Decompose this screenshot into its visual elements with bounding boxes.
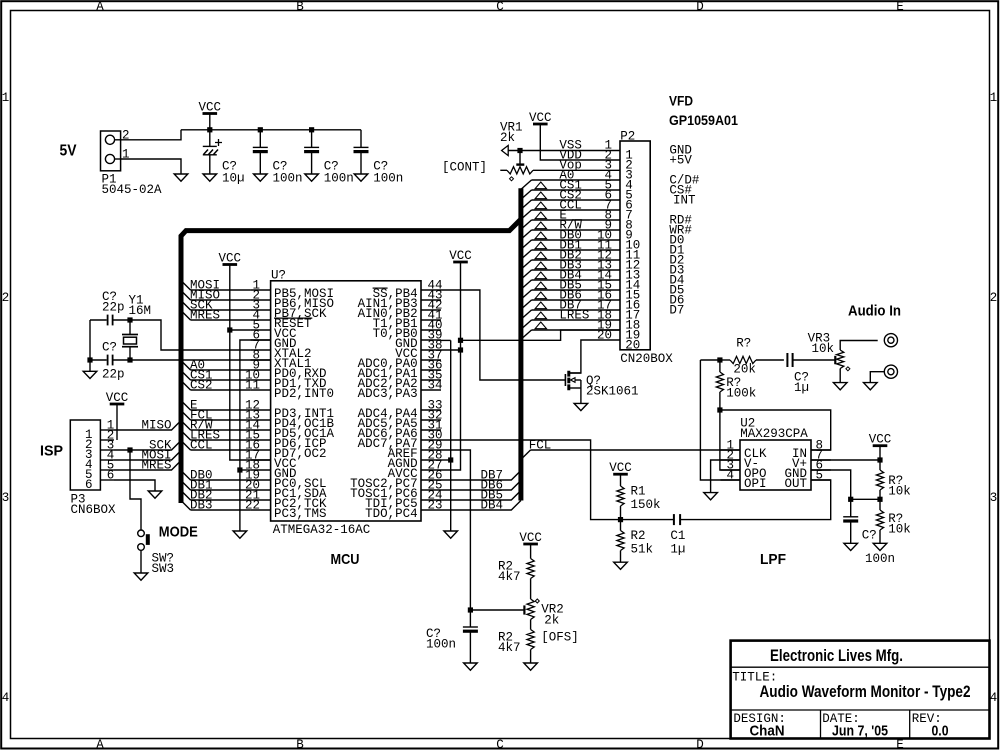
junction AREF node: [468, 607, 473, 612]
P3 type CN6BOX: [71, 503, 117, 517]
wire U2 OPI to audio node: [700, 360, 740, 480]
svg-text:100n: 100n: [324, 172, 354, 186]
R2 4k7 lower labels: [498, 631, 521, 656]
capacitor C? 22p (bottom): [108, 355, 113, 366]
wire DB4 (MCU pin23): [441, 498, 521, 512]
C 100n ref label C?: [862, 528, 877, 542]
svg-text:D: D: [696, 0, 704, 14]
wire net FCL (MCU left): [181, 408, 251, 422]
wire MCU pin30 to divider: [441, 440, 621, 520]
svg-text:100n: 100n: [865, 552, 895, 566]
wire U2 V- to ground: [711, 460, 740, 493]
ground C (b): [305, 174, 319, 181]
C (c) labels: [373, 160, 403, 186]
svg-text:E: E: [896, 0, 904, 14]
svg-text:VCC: VCC: [529, 111, 552, 125]
svg-text:Audio In: Audio In: [848, 302, 901, 319]
svg-text:PC3,TMS: PC3,TMS: [274, 507, 327, 521]
title name: [760, 682, 971, 701]
svg-text:1: 1: [990, 91, 998, 105]
bus (left and top, thick): [181, 219, 521, 503]
wire net DB6 to P2 pin 16: [521, 292, 620, 309]
title block box: [731, 641, 990, 739]
svg-text:C?: C?: [102, 340, 117, 354]
junction R1/R2/C1: [618, 517, 623, 522]
resistor R2 51k: [617, 520, 624, 563]
svg-text:100n: 100n: [273, 172, 303, 186]
wire net E to P2 pin 8: [521, 212, 620, 229]
title company: [770, 646, 903, 665]
R 10k lower labels: [888, 512, 911, 537]
title rev 0.0: [932, 723, 949, 740]
svg-text:C?: C?: [862, 528, 877, 542]
wire P1 pin2 to VCC rail: [121, 130, 181, 140]
svg-text:D7: D7: [669, 304, 684, 318]
label LPF: [760, 551, 786, 568]
C 22p top labels: [102, 290, 125, 315]
wire switch feed: [130, 450, 141, 530]
svg-text:5V: 5V: [60, 143, 77, 160]
svg-text:A: A: [96, 738, 104, 750]
MCU refdes U?: [271, 268, 286, 282]
svg-text:E: E: [896, 738, 904, 750]
power VCC (MCU left rail): [219, 251, 271, 460]
wire net DB0 to P2 pin 10: [521, 232, 620, 249]
svg-text:5045-02A: 5045-02A: [102, 183, 163, 197]
wire DB5 (MCU pin24): [441, 488, 521, 502]
ground R2 51k: [614, 562, 628, 569]
wire net FCL (bus to U2 CLK): [521, 438, 740, 459]
junction VCC rail / pin38: [441, 347, 463, 352]
svg-text:20k: 20k: [733, 363, 756, 377]
svg-text:Electronic Lives Mfg.: Electronic Lives Mfg.: [770, 646, 903, 665]
svg-text:4k7: 4k7: [498, 570, 521, 584]
svg-text:[CONT]: [CONT]: [442, 160, 487, 174]
svg-text:2: 2: [990, 291, 998, 305]
title date: [832, 723, 888, 740]
wire mid node to C: [851, 498, 880, 500]
svg-text:VCC: VCC: [869, 433, 892, 447]
ground jack: [864, 383, 878, 390]
label [CONT]: [442, 160, 487, 174]
C 1u audio labels: [794, 370, 809, 395]
svg-text:16M: 16M: [129, 304, 152, 318]
VR3 rotation mark: [846, 367, 850, 371]
crystal Y1: [122, 320, 138, 360]
junction SCK / mode switch: [127, 447, 132, 452]
wire net CS2 (MCU left): [181, 378, 251, 392]
wire audio node: [700, 359, 720, 361]
svg-text:100n: 100n: [426, 637, 456, 651]
capacitor C? 100n (c): [354, 130, 369, 174]
wire node to U2 IN: [720, 410, 831, 450]
R2 4k7 upper labels: [498, 560, 521, 585]
wire net DB1 to P2 pin 11: [521, 242, 620, 259]
resistor R? 100k: [716, 360, 723, 410]
wire GND rail down: [450, 340, 452, 531]
wire C to VR3 wiper: [793, 359, 835, 361]
svg-text:2: 2: [2, 291, 10, 305]
U2 part MAX293CPA: [740, 427, 808, 441]
power VCC (VR2): [519, 531, 542, 559]
wire XTAL2 path: [90, 320, 251, 350]
trimmer VR2 2k: [524, 599, 534, 620]
P3 refdes label: [71, 492, 86, 506]
U2 left pin stubs and numbers: [721, 438, 741, 482]
svg-text:22p: 22p: [102, 300, 125, 314]
R 20k labels: [733, 337, 756, 377]
MCU right pin stubs and numbers 23-44: [421, 278, 443, 512]
svg-text:VCC: VCC: [219, 251, 242, 265]
resistor R? 10k (upper): [876, 460, 883, 499]
label Audio In: [848, 302, 901, 319]
wire net CS2 to P2 pin 6: [521, 192, 620, 209]
junction filter in node: [717, 407, 722, 412]
svg-text:Jun 7, '05: Jun 7, '05: [832, 723, 888, 740]
P1 value 5045-02A: [102, 183, 163, 197]
svg-text:150k: 150k: [631, 498, 661, 512]
resistor R? 10k (lower): [876, 499, 883, 543]
ground R 10k lower: [873, 543, 887, 550]
power VCC (V+): [869, 433, 892, 461]
junction 10k mid node: [877, 497, 882, 502]
svg-text:CN6BOX: CN6BOX: [71, 503, 117, 517]
wire net DB5 to P2 pin 15: [521, 282, 620, 299]
power VCC (MCU right rail): [441, 249, 472, 470]
ground C (a): [254, 174, 268, 181]
svg-text:4k7: 4k7: [498, 641, 521, 655]
svg-text:C: C: [496, 0, 504, 14]
junction crystal top: [127, 317, 132, 322]
wire net DB2 (MCU left): [181, 488, 251, 502]
frame column letters top: [96, 0, 904, 14]
svg-text:R1: R1: [631, 484, 646, 498]
wire net A0 (MCU left): [181, 358, 251, 372]
svg-text:4: 4: [2, 691, 10, 705]
wire net SCK (MCU left): [181, 298, 251, 312]
wire ISP pin1 MISO: [114, 418, 181, 432]
wire net CCL (MCU left): [181, 438, 251, 452]
wire divider to C1: [621, 519, 674, 521]
Y1 labels: [129, 293, 152, 318]
ground ISP pin6: [148, 491, 162, 498]
svg-text:1µ: 1µ: [794, 381, 809, 395]
MCU interior right pin names: [350, 287, 418, 521]
wire node to U2 OPO: [720, 410, 740, 470]
wire ISP pin6 to ground: [114, 480, 155, 491]
ground U2 V-: [704, 493, 718, 500]
bus (right vertical, thick): [518, 188, 523, 500]
label ISP: [40, 443, 63, 460]
wire net LRES to P2 pin 18: [521, 312, 620, 329]
ground VR2 chain: [524, 663, 538, 670]
svg-text:MODE: MODE: [159, 524, 198, 541]
R 10k upper labels: [888, 474, 911, 499]
wire VSS line: [508, 150, 620, 152]
svg-text:51k: 51k: [631, 542, 654, 556]
wire net MOSI (MCU left): [181, 278, 251, 292]
svg-text:+5V: +5V: [669, 154, 692, 168]
junction VCC rail / C2: [258, 127, 263, 132]
frame row numbers right: [990, 91, 998, 705]
wire net DB1 (MCU left): [181, 478, 251, 492]
svg-text:C: C: [496, 738, 504, 750]
wire net DB3 (MCU left): [181, 498, 251, 512]
connector P1: [101, 131, 121, 171]
capacitor C1 1u: [674, 514, 680, 525]
C (a) labels: [273, 160, 303, 186]
trimmer VR1 2k: [500, 167, 620, 174]
MCU interior left pin names: [274, 287, 335, 521]
wire ISP pin5 MRES: [114, 458, 181, 472]
title REV:: [912, 712, 942, 726]
ground C 10u: [203, 174, 217, 181]
junction VR1 wiper: [517, 148, 522, 153]
junction crystal gnd: [87, 357, 92, 362]
svg-text:R?: R?: [736, 337, 751, 351]
wire P1 pin1 to ground: [121, 159, 181, 174]
VR1 labels: [500, 120, 523, 145]
svg-text:C1: C1: [670, 529, 685, 543]
junction VCC rail / C3: [309, 127, 314, 132]
junction V+ node: [877, 457, 882, 462]
svg-text:10k: 10k: [888, 522, 911, 536]
svg-text:OPI: OPI: [744, 477, 767, 491]
ground MCU right rail: [444, 531, 458, 538]
svg-text:P2: P2: [620, 129, 635, 143]
svg-text:ISP: ISP: [40, 443, 63, 460]
U2 interior right pin names: [784, 447, 807, 491]
wire MCU pin29 AREF down: [441, 450, 470, 610]
svg-text:INT: INT: [673, 194, 696, 208]
junction C 100n node: [848, 497, 853, 502]
svg-text:2k: 2k: [544, 614, 559, 628]
title TITLE:: [732, 671, 777, 685]
title block dividers: [731, 667, 990, 738]
resistor R1 150k: [617, 486, 624, 520]
P1 pin number 2: [122, 129, 130, 143]
MCU part number ATMEGA32-16AC: [273, 523, 371, 537]
junction P2-19 net / VCC rail: [458, 338, 463, 343]
svg-text:ADC3,PA3: ADC3,PA3: [358, 387, 418, 401]
wire net R/W (MCU left): [181, 418, 251, 432]
wire U2 GND pin: [811, 470, 851, 499]
switch labels SW? SW3: [152, 551, 175, 576]
wire net DB3 to P2 pin 13: [521, 262, 620, 279]
capacitor C? 100n (OFS): [463, 610, 478, 663]
wire VCC rail: [181, 129, 361, 131]
wire net CCL to P2 pin 7: [521, 202, 620, 219]
svg-text:VCC: VCC: [106, 391, 129, 405]
wire P2 pin19 to VCC rail: [461, 330, 621, 340]
wire net LRES (MCU left): [181, 428, 251, 442]
VR2 rotation mark: [535, 599, 539, 603]
frame column letters bottom: [96, 738, 904, 752]
P3 pin stubs and numbers: [85, 418, 114, 492]
svg-text:10k: 10k: [812, 342, 835, 356]
label 5V: [60, 143, 77, 160]
svg-text:Audio Waveform Monitor - Type2: Audio Waveform Monitor - Type2: [760, 682, 971, 701]
junction VCC rail / C 10u: [207, 127, 212, 132]
svg-text:U?: U?: [271, 268, 286, 282]
svg-text:TDO,PC4: TDO,PC4: [365, 507, 418, 521]
svg-text:MCU: MCU: [331, 551, 360, 568]
svg-text:VCC: VCC: [519, 531, 542, 545]
svg-text:VCC: VCC: [609, 461, 632, 475]
capacitor C? 1u (audio): [787, 353, 792, 367]
U2 refdes: [740, 416, 755, 430]
wire U2 V+ wire: [811, 459, 880, 461]
Q labels: [586, 374, 639, 399]
svg-text:B: B: [296, 738, 304, 750]
net arrow VSS: [502, 145, 509, 155]
wire net E (MCU left): [181, 398, 251, 412]
svg-text:22p: 22p: [102, 367, 125, 381]
P2 inside pin numbers: [625, 148, 640, 352]
wire net DB7 to P2 pin 17: [521, 302, 620, 319]
P1 refdes label: [102, 172, 117, 186]
wire C1 to U2 OUT: [680, 480, 831, 520]
resistor R2 4k7 (upper): [527, 559, 534, 600]
svg-text:LPF: LPF: [760, 551, 786, 568]
capacitor C? 100n (a): [253, 130, 268, 174]
svg-text:[OFS]: [OFS]: [541, 631, 579, 645]
wire P2 pin 19: [521, 322, 620, 339]
svg-text:MRES: MRES: [190, 308, 220, 322]
jack tip contact: [884, 334, 897, 347]
wire XTAL1 path: [90, 320, 271, 360]
trimmer VR3 10k: [835, 341, 877, 383]
title designer ChaN: [750, 723, 785, 740]
wire MCU pin39 GND: [441, 339, 451, 341]
svg-text:GP1059A01: GP1059A01: [669, 112, 738, 128]
capacitor C? 10u (electrolytic): [203, 130, 222, 174]
wire net CS1 to P2 pin 5: [521, 182, 620, 199]
capacitor C? 22p (top): [108, 315, 113, 326]
title DATE:: [822, 712, 860, 726]
svg-text:VCC: VCC: [449, 249, 472, 263]
VR1 rotation mark: [510, 177, 514, 181]
wire MCU pin44 to Q gate: [441, 290, 565, 380]
svg-text:CN20BOX: CN20BOX: [620, 352, 673, 366]
wire net MISO (MCU left): [181, 288, 251, 302]
ground VR3: [833, 383, 847, 390]
label MODE: [159, 524, 198, 541]
wire DB7 (MCU pin26): [441, 468, 521, 482]
svg-text:4: 4: [990, 691, 998, 705]
R2 51k labels: [631, 529, 654, 557]
power VCC (top rail): [199, 100, 222, 130]
ground C 100n (OFS): [464, 663, 478, 670]
svg-text:D: D: [696, 738, 704, 750]
svg-text:23: 23: [428, 498, 443, 512]
C1 labels: [670, 529, 685, 557]
svg-text:3: 3: [2, 491, 10, 505]
P2 signal name labels: [559, 138, 589, 322]
wire ISP pin3 SCK: [114, 438, 181, 452]
jack sleeve contact: [884, 365, 897, 378]
ground MCU left rail: [233, 531, 247, 538]
resistor R2 4k7 (lower): [527, 620, 534, 664]
ground crystal: [83, 360, 97, 379]
P2 type CN20BOX: [620, 352, 673, 366]
svg-text:1µ: 1µ: [670, 542, 685, 556]
svg-text:CCL: CCL: [190, 438, 213, 452]
label VFD: [669, 92, 693, 108]
P2 outside pin numbers: [597, 138, 612, 342]
svg-text:0.0: 0.0: [932, 723, 949, 740]
svg-text:VFD: VFD: [669, 92, 693, 108]
svg-text:10k: 10k: [888, 484, 911, 498]
wire net MRES (MCU left): [181, 308, 251, 322]
svg-text:10µ: 10µ: [222, 172, 245, 186]
label MCU: [331, 551, 360, 568]
svg-text:PD2,INT0: PD2,INT0: [274, 387, 334, 401]
capacitor C? 100n (b): [304, 130, 319, 174]
power VCC (R1): [609, 461, 632, 486]
wire net DB0 (MCU left): [181, 468, 251, 482]
U2 right pin stubs and numbers: [811, 438, 831, 482]
svg-text:MAX293CPA: MAX293CPA: [740, 427, 808, 441]
VR2 labels: [541, 603, 564, 628]
svg-text:MRES: MRES: [141, 458, 171, 472]
svg-text:SW3: SW3: [152, 562, 175, 576]
label [OFS]: [541, 631, 579, 645]
svg-text:2SK1061: 2SK1061: [586, 384, 639, 398]
VFD pin function labels: [669, 144, 700, 318]
U2 box: [740, 440, 811, 490]
svg-text:MISO: MISO: [141, 418, 171, 432]
svg-text:VCC: VCC: [199, 100, 222, 114]
connector P2 box: [620, 141, 650, 350]
wire switch to ground: [140, 550, 142, 573]
svg-text:A: A: [96, 0, 104, 14]
svg-text:DB3: DB3: [190, 498, 213, 512]
P1 pin number 1: [122, 148, 130, 162]
ground C (c): [354, 174, 368, 181]
wire net R/W to P2 pin 9: [521, 222, 620, 239]
svg-text:ChaN: ChaN: [750, 723, 785, 740]
U2 interior left pin names: [744, 447, 767, 491]
svg-text:CS2: CS2: [190, 378, 213, 392]
wire ISP pin4 MOSI: [114, 448, 181, 462]
svg-text:6: 6: [85, 478, 93, 492]
MCU U? box: [271, 281, 421, 521]
wire AREF to VR2 wiper: [470, 609, 523, 611]
ground C 100n ref: [844, 543, 858, 550]
R 100k labels: [726, 376, 756, 401]
resistor R? 20k: [720, 356, 784, 363]
junction GND rail / pin18: [237, 467, 250, 472]
C 100n ref value: [865, 552, 895, 566]
ground P1: [174, 174, 188, 181]
VR1 wiper: [516, 151, 524, 165]
ground Q source: [574, 403, 588, 410]
wire P2 pin20 to Q drain: [569, 340, 620, 373]
ground switch: [134, 573, 148, 580]
wire jack sleeve to ground: [870, 372, 884, 383]
wire net DB2 to P2 pin 12: [521, 252, 620, 269]
svg-text:100k: 100k: [726, 386, 756, 400]
junction crystal bottom: [127, 357, 132, 362]
svg-text:DB4: DB4: [480, 498, 503, 512]
connector P3 box: [70, 420, 100, 490]
wire net DB4 to P2 pin 14: [521, 272, 620, 289]
C 10u labels: [222, 160, 245, 186]
svg-text:1: 1: [2, 91, 10, 105]
junction GND rail / AGND pin28: [441, 457, 453, 462]
wire net CS1 (MCU left): [181, 368, 251, 382]
